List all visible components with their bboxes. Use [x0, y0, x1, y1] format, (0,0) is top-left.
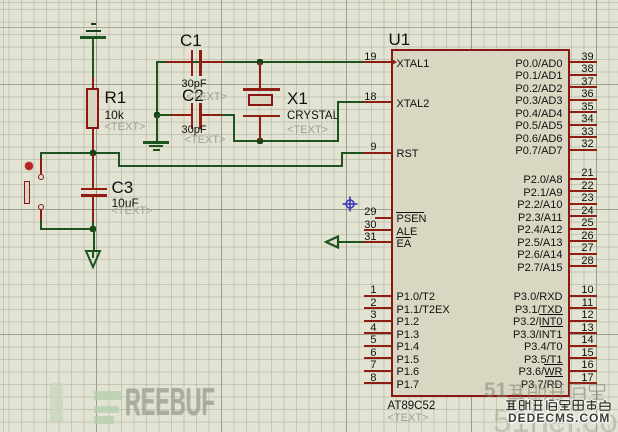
pin 13 number — [578, 323, 598, 333]
C2 value 30pF — [182, 124, 207, 137]
pin 34 P0.5/AD5 stub — [570, 124, 597, 126]
wire button-bottom horizontal — [40, 228, 94, 230]
label C1 — [180, 31, 202, 50]
C1 left lead — [166, 61, 192, 63]
pin 21 number — [578, 168, 598, 178]
pin 15 P3.5/T1 stub — [570, 357, 597, 359]
C3 bottom lead — [92, 197, 94, 223]
resistor R1 body — [86, 88, 99, 129]
watermark DEDECMS.COM — [508, 412, 610, 424]
pin 32 P0.7/AD7 stub — [570, 149, 597, 151]
pin 24 name label — [518, 213, 562, 224]
wire C3-to-junction — [92, 222, 94, 229]
pin 37 name label — [515, 84, 562, 95]
pin 27 number — [578, 243, 598, 253]
pin 10 number — [578, 285, 598, 295]
value CRYSTAL — [287, 110, 339, 124]
pin 13 name label — [513, 330, 563, 341]
pin 29 name label — [397, 214, 427, 225]
pin 12 name label — [513, 317, 563, 328]
wire button-top corner vert — [40, 152, 42, 158]
pin 16 P3.6/WR stub — [570, 370, 597, 372]
U1 &lt;TEXT&gt; — [388, 412, 429, 425]
pin 31 name label — [397, 239, 412, 250]
P3.2/INT0 overline — [539, 314, 563, 315]
power bar symbol (net VCC, flipped ground-style bars) — [91, 23, 97, 25]
pin 5 P1.4 stub — [364, 345, 392, 347]
wire RST horizontal right — [341, 152, 365, 154]
wire junction-to-ground-arrow — [93, 229, 95, 252]
pin 14 P3.4/T0 stub — [570, 345, 597, 347]
pin 23 name label — [517, 200, 562, 211]
push button actuator dot — [25, 162, 33, 170]
button top lead — [40, 158, 42, 174]
pin 16 number — [578, 360, 598, 370]
R1 top lead — [92, 77, 94, 89]
pin 32 number — [578, 139, 598, 149]
pin 12 P3.2/INT0 stub — [570, 320, 597, 322]
pin 14 number — [578, 335, 598, 345]
pin 33 P0.6/AD6 stub — [570, 136, 597, 138]
pin 9 RST stub — [364, 152, 392, 154]
pin 17 name label — [521, 380, 563, 391]
pin 24 number — [578, 206, 598, 216]
pin 38 number — [578, 64, 598, 74]
pin 35 number — [578, 102, 598, 112]
pin 1 number — [327, 285, 377, 295]
C3 &lt;TEXT&gt; — [112, 205, 153, 218]
label C3 — [112, 178, 134, 197]
pin 19 XTAL1 stub — [364, 61, 392, 63]
wire C1-left vertical — [156, 61, 158, 116]
pin 22 P2.1/A9 stub — [570, 190, 597, 192]
pin 31 EA stub — [364, 241, 392, 243]
pin 8 number — [327, 373, 377, 383]
pin 9 name label — [397, 149, 419, 160]
pin 29 number — [327, 207, 377, 217]
pin 38 name label — [515, 71, 562, 82]
C1 value 30pF — [182, 78, 207, 91]
crystal X1 top plate — [243, 88, 280, 91]
C2 left lead — [171, 114, 192, 116]
pin 6 number — [327, 348, 377, 358]
pin 21 name label — [523, 175, 562, 186]
push button top contact — [38, 174, 44, 180]
P3.7/RD overline — [545, 376, 563, 377]
C2 right lead — [201, 114, 223, 116]
pin 7 name label — [397, 367, 420, 378]
pin 12 number — [578, 310, 598, 320]
wire RST step up — [341, 152, 343, 167]
push button body bar — [24, 181, 30, 204]
pin 36 name label — [515, 96, 562, 107]
pin 3 name label — [397, 317, 420, 328]
pin 5 number — [327, 335, 377, 345]
watermark FREEBUF logo bar — [50, 383, 63, 422]
pin 11 P3.1/TXD stub — [570, 307, 597, 309]
watermark FREEBUF logo bars — [94, 391, 121, 400]
crystal bottom lead — [259, 117, 261, 141]
wire XTAL1 horizontal — [156, 61, 261, 63]
pin 3 number — [327, 310, 377, 320]
R1 bottom lead — [92, 129, 94, 153]
pin 30 name label — [397, 227, 418, 238]
capacitor C2 left plate — [191, 103, 194, 129]
pin 34 number — [578, 114, 598, 124]
capacitor C1 right plate — [199, 50, 202, 76]
pin 35 P0.4/AD4 stub — [570, 111, 597, 113]
pin 11 name label — [515, 305, 563, 316]
junction crystal-top — [257, 59, 263, 65]
pin 6 name label — [397, 355, 420, 366]
wire EA terminal — [337, 241, 364, 243]
wire XTAL2 vertical — [337, 101, 339, 142]
pin 4 number — [327, 323, 377, 333]
pin 2 name label — [397, 305, 450, 316]
X1 &lt;TEXT&gt; — [287, 124, 328, 137]
pin 11 number — [578, 298, 598, 308]
pin 6 P1.5 stub — [364, 357, 392, 359]
ground arrow symbol — [84, 250, 102, 270]
pin 22 name label — [523, 188, 562, 199]
wire button-bottom vert — [40, 221, 42, 230]
pin 36 number — [578, 89, 598, 99]
watermark 51hei forum (CJK) — [484, 380, 507, 402]
pin 2 number — [327, 298, 377, 308]
pin 4 P1.3 stub — [364, 332, 392, 334]
pin 34 name label — [515, 121, 562, 132]
value 10k — [105, 108, 124, 122]
junction C3-bottom/ground — [90, 226, 96, 232]
pin 18 name label — [397, 99, 430, 110]
pin 38 P0.1/AD1 stub — [570, 74, 597, 76]
pin 17 number — [578, 373, 598, 383]
pin 25 name label — [517, 225, 562, 236]
pin 32 name label — [515, 146, 562, 157]
wire XTAL2 horizontal — [337, 101, 364, 103]
pin 26 P2.5/A13 stub — [570, 240, 597, 242]
C1 &lt;TEXT&gt; — [186, 91, 227, 104]
pin 4 name label — [397, 330, 420, 341]
pin 3 P1.2 stub — [364, 320, 392, 322]
pin 27 P2.6/A14 stub — [570, 253, 597, 255]
crystal X1 body — [248, 94, 273, 106]
label AT89C52 — [388, 400, 436, 414]
pin 18 number — [327, 92, 377, 102]
pin 24 P2.3/A11 stub — [570, 215, 597, 217]
pin 39 number — [578, 52, 598, 62]
junction R1/C3/RST — [90, 150, 96, 156]
pin 37 P0.2/AD2 stub — [570, 86, 597, 88]
label X1 — [287, 89, 308, 108]
wire RST step down — [118, 152, 120, 166]
pin 26 name label — [517, 238, 562, 249]
wire C2 down — [233, 114, 235, 142]
PSEN overline — [396, 212, 424, 213]
pin 28 P2.7/A15 stub — [570, 265, 597, 267]
C2 left lead green — [158, 114, 171, 116]
pin 8 name label — [397, 380, 420, 391]
wire C2-right corner — [222, 114, 235, 116]
op: IC U1 AT89C52 body — [391, 49, 570, 398]
pin 7 number — [327, 360, 377, 370]
origin marker (blue crosshair) — [342, 196, 358, 212]
EA input terminal arrow — [324, 235, 340, 249]
pin 37 number — [578, 77, 598, 87]
pin 1 name label — [397, 292, 436, 303]
pin 1 P1.0/T2 stub — [364, 295, 392, 297]
wire C2-junction-to-ground — [156, 115, 158, 142]
pin 14 name label — [524, 342, 563, 353]
EA overline — [396, 237, 411, 238]
pin 10 name label — [514, 292, 563, 303]
pin 8 P1.7 stub — [364, 382, 392, 384]
pin 2 P1.1/T2EX stub — [364, 307, 392, 309]
pin 25 P2.4/A12 stub — [570, 228, 597, 230]
value 10uF — [112, 196, 139, 210]
pin 15 name label — [524, 355, 563, 366]
capacitor C3 bottom plate — [81, 194, 107, 197]
pin 35 name label — [515, 109, 562, 120]
wire C2-to-crystal-bottom — [233, 140, 338, 142]
pin 28 name label — [517, 263, 562, 274]
C1 right lead — [201, 61, 224, 63]
C2 &lt;TEXT&gt; — [185, 134, 226, 147]
wire RST dip horizontal — [118, 165, 343, 167]
capacitor C1 left plate — [191, 50, 194, 76]
label C2 — [182, 86, 204, 105]
pin 26 number — [578, 231, 598, 241]
pin 15 number — [578, 348, 598, 358]
pin 33 number — [578, 127, 598, 137]
pin 31 number — [327, 232, 377, 242]
pin 30 ALE stub — [364, 229, 392, 231]
wire RST horizontal left — [40, 152, 120, 154]
capacitor C2 right plate — [199, 103, 202, 129]
pin 19 number — [327, 52, 377, 62]
pin 39 name label — [515, 59, 562, 70]
P3.6/WR overline — [544, 364, 563, 365]
wire power-to-R1 — [92, 38, 94, 77]
button bottom lead — [40, 210, 42, 222]
watermark 51hei.com faint — [493, 404, 618, 432]
pin 7 P1.6 stub — [364, 370, 392, 372]
C3 top lead — [92, 154, 94, 188]
capacitor C3 top plate — [81, 188, 107, 191]
pin 21 P2.0/A8 stub — [570, 178, 597, 180]
pin 9 number — [327, 142, 377, 152]
pin 19 name label — [397, 59, 430, 70]
pin 29 PSEN stub — [375, 217, 391, 219]
crystal top lead — [259, 62, 261, 89]
pin 27 name label — [517, 250, 562, 261]
ground symbol (3 bars) — [143, 141, 169, 144]
pin 5 name label — [397, 342, 420, 353]
pin 33 name label — [515, 134, 562, 145]
push button bottom contact — [38, 204, 44, 210]
crystal X1 bottom plate — [243, 115, 280, 118]
label R1 — [105, 88, 127, 107]
pin 25 number — [578, 218, 598, 228]
pin 16 name label — [518, 367, 562, 378]
pin 17 P3.7/RD stub — [570, 382, 597, 384]
pin 13 P3.3/INT1 stub — [570, 332, 597, 334]
R1 &lt;TEXT&gt; — [105, 121, 146, 134]
pin 28 number — [578, 256, 598, 266]
junction crystal-bottom — [257, 138, 263, 144]
junction C2-left — [154, 112, 160, 118]
pin 36 P0.3/AD3 stub — [570, 99, 597, 101]
pin 10 P3.0/RXD stub — [570, 295, 597, 297]
P3.3/INT1 overline — [540, 326, 563, 327]
pin 23 P2.2/A10 stub — [570, 203, 597, 205]
watermark FREEBUF text — [125, 383, 215, 422]
pin 30 number — [327, 220, 377, 230]
wire C1-to-crystal — [224, 61, 364, 63]
pin 18 XTAL2 stub — [364, 101, 392, 103]
pin 22 number — [578, 181, 598, 191]
label U1 — [389, 30, 411, 49]
pin 19 entry arrow — [392, 59, 397, 65]
pin 39 P0.0/AD0 stub — [570, 61, 597, 63]
pin 23 number — [578, 193, 598, 203]
